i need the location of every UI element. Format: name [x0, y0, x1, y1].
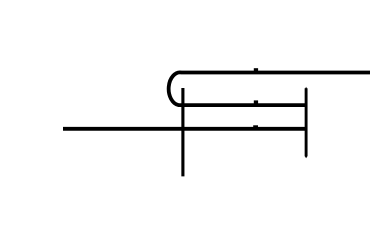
tip nub: right vertical stub bottom	[305, 156, 308, 158]
wire: right vertical stub	[305, 88, 308, 156]
wire: bottom horizontal	[63, 127, 307, 131]
tick mark: on top horizontal wire	[254, 68, 258, 73]
wire: left vertical stub	[181, 88, 184, 176]
tick mark: on middle horizontal wire	[254, 100, 258, 105]
tip nub: right vertical stub top	[305, 87, 307, 89]
wire: top horizontal with U-turn hook into middle horizontal	[169, 72, 370, 105]
tick mark: on bottom horizontal wire	[253, 125, 258, 129]
